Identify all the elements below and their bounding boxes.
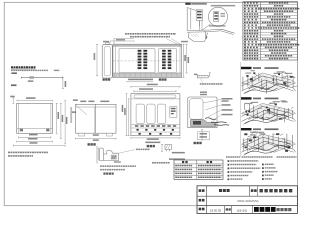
side profile clearance detail (97, 146, 150, 175)
svg-text:15.30.35: 15.30.35 (210, 209, 221, 213)
front view of unit interior (122, 84, 180, 148)
installation example A (isometric) (241, 67, 297, 94)
side view with hoses and cords (188, 92, 233, 145)
counter top-face strip with dimension (11, 76, 66, 88)
installation notes list (226, 156, 297, 180)
adjuster foot detail (161, 144, 185, 160)
left notes header (opening dimensions) (11, 66, 59, 74)
isometric counter cutout detail view with circle callout (185, 3, 235, 42)
hose and cord parts table (152, 160, 223, 180)
drawing sheet border frame (4, 2, 297, 205)
cabinet opening dimension drawing (10, 96, 72, 147)
plan view dimension notes (110, 33, 176, 44)
right column separator line (239, 62, 241, 157)
left footnotes (8, 152, 48, 157)
main bottom border line (4, 205, 197, 207)
title block with Rinnai company name (197, 186, 297, 214)
leader lines from plan to reference view (166, 39, 181, 45)
specification table (243, 2, 299, 60)
installation example C (isometric) (241, 128, 296, 155)
plan view of dishwasher body (94, 41, 190, 82)
A-A rail section detail (194, 72, 223, 84)
svg-text:RKW-403GP(M): RKW-403GP(M) (238, 199, 259, 203)
svg-text:(1/2+2/1): (1/2+2/1) (237, 209, 248, 213)
installation example B (isometric) (241, 97, 296, 124)
front view with decorative door panel (72, 99, 116, 145)
